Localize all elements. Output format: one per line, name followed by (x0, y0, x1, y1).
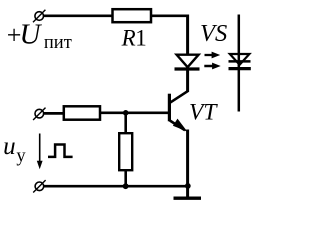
wire top terminal to R1 (44, 14, 113, 17)
wire to base (100, 111, 168, 114)
node base junction (123, 110, 129, 116)
transistor VT emitter with arrow (170, 119, 188, 132)
resistor input horizontal (64, 106, 100, 119)
node bottom resistor junction (123, 183, 129, 189)
svg-text:VS: VS (200, 20, 227, 47)
wire vertical collector branch (186, 15, 189, 56)
svg-text:U: U (20, 19, 43, 51)
photodetector of optocoupler VS (229, 15, 251, 112)
resistor R1 (113, 9, 152, 22)
wire bottom (44, 185, 188, 188)
control arrow down (37, 134, 43, 170)
wire emitter down (186, 130, 189, 188)
terminal middle input (33, 108, 45, 120)
svg-text:VT: VT (189, 99, 218, 125)
svg-text:пит: пит (44, 33, 72, 53)
wire R1 to collector branch corner (152, 16, 186, 17)
terminal top (+Uпит input) (33, 10, 45, 22)
transistor VT base bar (168, 94, 171, 122)
light arrow bottom (204, 63, 220, 70)
ground lead (186, 186, 189, 197)
label +Uпит (7, 19, 72, 54)
pulse symbol (48, 145, 73, 157)
svg-text:R1: R1 (121, 25, 147, 50)
svg-text:u: u (3, 133, 16, 160)
node emitter junction (185, 183, 191, 189)
resistor vertical lead top (124, 113, 127, 133)
terminal control input (33, 180, 45, 192)
svg-text:у: у (16, 146, 26, 166)
ground (174, 196, 202, 199)
wire middle terminal to input resistor (44, 112, 63, 115)
LED of optocoupler VS (175, 55, 200, 92)
light arrow top (205, 52, 221, 59)
label uy (3, 133, 26, 166)
resistor vertical lead bottom (124, 170, 127, 186)
transistor VT collector (170, 91, 188, 103)
resistor vertical (119, 133, 132, 170)
